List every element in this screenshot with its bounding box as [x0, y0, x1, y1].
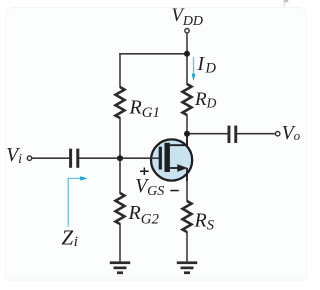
- transistor Q1 MOSFET body (circle): [151, 139, 192, 180]
- transistor channel bar: [165, 143, 170, 172]
- transistor gate lead inside body: [151, 157, 160, 159]
- wire RG1 top vertical: [119, 53, 121, 88]
- node junction at drain: [184, 131, 190, 137]
- plus sign of VGS: [140, 171, 149, 173]
- transistor gate bar: [159, 147, 162, 170]
- wire C1 to gate node to gate: [79, 157, 159, 159]
- transistor source lead with arrow: [170, 167, 180, 169]
- wire RG2 bottom to ground: [119, 224, 121, 263]
- resistor RD: [183, 84, 192, 115]
- wire RD bottom to drain node: [186, 115, 188, 147]
- current arrow ID (blue): [193, 57, 195, 75]
- wire source to RS: [186, 167, 188, 202]
- wire RG1 bottom to gate node to RG2 top: [119, 118, 121, 194]
- impedance arrow Zi (blue elbow): [68, 178, 80, 226]
- wire drain node to C2: [187, 133, 228, 135]
- resistor RS: [183, 201, 192, 232]
- printing smudge artifact at top edge: [284, 0, 289, 2]
- ground (left, below RG2): [110, 261, 130, 264]
- wire top horizontal from VDD rail to RG1: [119, 53, 187, 55]
- wire input terminal to C1: [32, 157, 70, 159]
- wire C2 to output terminal: [237, 133, 275, 135]
- terminal Vi (open circle): [27, 156, 31, 160]
- node junction at gate: [117, 155, 123, 161]
- terminal Vo (open circle): [276, 132, 280, 136]
- resistor RG2: [116, 193, 125, 224]
- resistor RG1: [116, 87, 125, 118]
- capacitor C2 (output coupling): [228, 126, 231, 143]
- ground (right, below RS): [177, 261, 197, 264]
- terminal VDD (open circle): [185, 29, 189, 33]
- wire RS bottom to ground: [186, 232, 188, 263]
- node junction below VDD: [184, 51, 190, 57]
- minus sign of VGS: [170, 190, 179, 192]
- transistor drain lead inside body: [170, 135, 187, 146]
- wire VDD vertical rail: [186, 34, 188, 85]
- capacitor C1 (input coupling): [69, 149, 72, 168]
